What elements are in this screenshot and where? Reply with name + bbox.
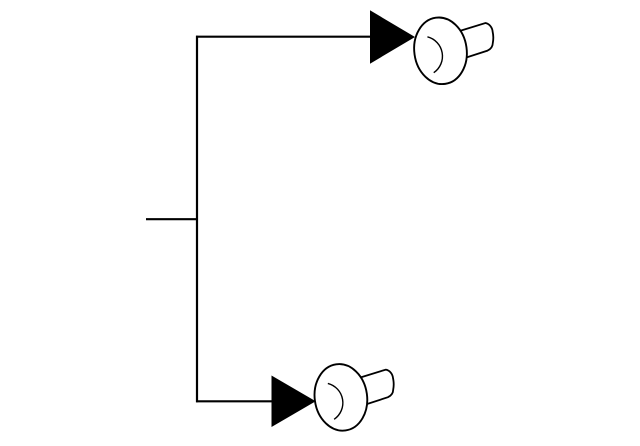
arrowhead to top bolt	[370, 10, 415, 63]
wire: bottom horizontal line	[196, 400, 274, 402]
bolt B2 (bottom)	[310, 361, 398, 434]
bolt B1 head	[410, 14, 471, 87]
arrowhead to bottom bolt	[272, 376, 316, 428]
wire: vertical bracket line	[196, 36, 198, 403]
bolt B2 shaft	[354, 368, 398, 405]
bolt B2 head	[310, 361, 371, 434]
wire: middle stub line	[146, 218, 197, 220]
bolt B2 head crescent	[325, 381, 347, 420]
bolt B1 (top)	[410, 14, 498, 87]
bolt B1 shaft	[454, 22, 498, 59]
bolt B1 head crescent	[424, 34, 446, 73]
wire: top horizontal line	[196, 36, 372, 38]
